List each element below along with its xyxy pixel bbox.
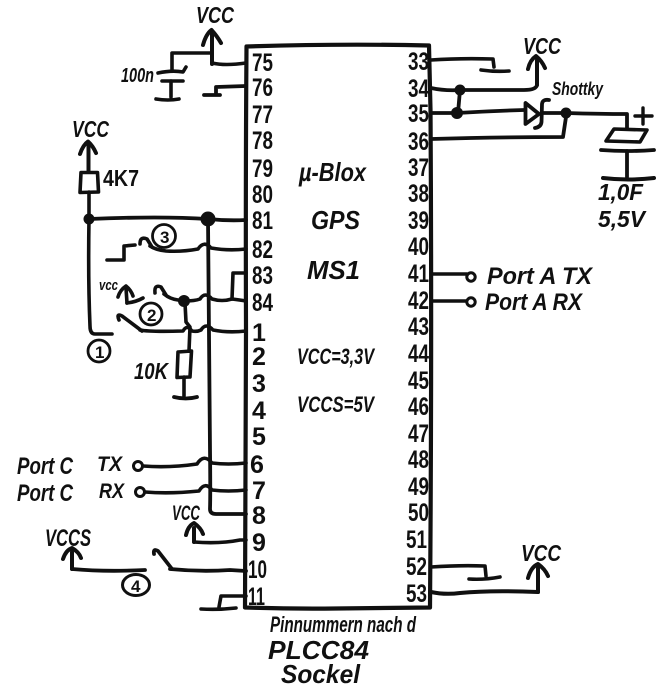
caption Pinnummern nach d xyxy=(270,612,416,637)
svg-text:3: 3 xyxy=(252,370,266,398)
svg-text:vcc: vcc xyxy=(99,277,118,294)
svg-text:8: 8 xyxy=(252,502,266,530)
svg-text:52: 52 xyxy=(406,553,427,581)
svg-text:45: 45 xyxy=(408,367,429,395)
svg-text:83: 83 xyxy=(252,262,273,290)
svg-text:9: 9 xyxy=(252,529,266,557)
VCC arrow left xyxy=(80,142,96,173)
VCC label top center xyxy=(196,2,234,28)
left pin numbers 75-84, 1-11 xyxy=(248,49,273,611)
ground below C2 xyxy=(603,178,654,180)
svg-text:34: 34 xyxy=(408,75,429,103)
svg-text:37: 37 xyxy=(408,154,429,182)
svg-text:MS1: MS1 xyxy=(307,255,360,285)
svg-text:3: 3 xyxy=(160,228,169,247)
wire pin75 to VCC xyxy=(212,63,246,65)
caption PLCC84 xyxy=(268,635,370,665)
svg-text:84: 84 xyxy=(252,289,273,317)
label Shottky xyxy=(552,79,604,99)
wire pin 36 up to diode node xyxy=(431,117,566,139)
svg-text:51: 51 xyxy=(406,526,427,554)
small vcc label at switch S2 xyxy=(99,277,118,294)
svg-text:2: 2 xyxy=(252,343,266,371)
svg-text:76: 76 xyxy=(252,74,273,102)
right pin numbers 33-53 xyxy=(406,48,429,608)
label 100n xyxy=(121,65,154,87)
svg-text:11: 11 xyxy=(248,583,265,611)
wire pin 42 Port A RX xyxy=(431,299,466,303)
circled 2 xyxy=(140,303,162,325)
plus sign at C2 xyxy=(635,108,652,124)
svg-text:Port A RX: Port A RX xyxy=(485,289,584,316)
switch S1 blade and wire to pin 1 xyxy=(118,315,246,332)
circled 1 xyxy=(88,340,110,362)
svg-text:100n: 100n xyxy=(121,65,154,87)
svg-text:38: 38 xyxy=(408,180,429,208)
svg-text:4: 4 xyxy=(131,577,141,596)
label 4K7 xyxy=(103,165,139,191)
wire pin 35 to diode anode xyxy=(431,110,524,113)
svg-text:Port C: Port C xyxy=(17,453,74,480)
wire VCCS to switch S4 xyxy=(72,569,145,571)
svg-text:µ-Blox: µ-Blox xyxy=(298,157,367,187)
svg-text:49: 49 xyxy=(408,473,429,501)
svg-text:GPS: GPS xyxy=(311,205,361,235)
circled 3 xyxy=(153,225,176,248)
switch S3 fixed contact xyxy=(107,245,135,260)
terminal circle pin 41 xyxy=(467,273,475,281)
node dot pin 34 xyxy=(455,85,466,96)
svg-text:36: 36 xyxy=(408,128,429,156)
resistor R2 10K xyxy=(177,351,192,396)
svg-text:80: 80 xyxy=(252,181,273,209)
svg-text:Pinnummern nach d: Pinnummern nach d xyxy=(270,612,416,637)
ground contact at pin 76 xyxy=(204,86,246,95)
svg-text:2: 2 xyxy=(147,306,156,325)
svg-text:42: 42 xyxy=(408,287,429,315)
circled 4 xyxy=(123,575,150,596)
IC label VCCS=5V xyxy=(297,392,376,417)
VCC arrow bottom right and wire to pin 53 xyxy=(431,564,548,594)
wire pin 41 Port A TX xyxy=(431,272,467,276)
label 5,5V xyxy=(598,206,647,232)
IC label VCC=3,3V xyxy=(297,344,376,369)
wire VCC branch to capacitor xyxy=(172,53,212,71)
svg-text:4K7: 4K7 xyxy=(103,165,139,191)
IC U1 u-Blox GPS MS1 PLCC84 socket body xyxy=(245,45,431,609)
node big junction dot on pin 81 wire xyxy=(201,212,216,227)
svg-text:1,0F: 1,0F xyxy=(598,179,644,205)
wire 10K tap down xyxy=(185,303,190,351)
svg-text:41: 41 xyxy=(408,260,429,288)
terminal circle pin 42 xyxy=(467,298,475,306)
node dot pin 35 xyxy=(451,107,463,119)
svg-text:Sockel: Sockel xyxy=(281,659,361,689)
switch S4 blade and wire to pin 10 xyxy=(154,550,246,571)
label Port A RX xyxy=(485,289,584,316)
label 10K xyxy=(134,358,169,384)
IC label u-Blox xyxy=(298,157,367,187)
svg-text:VCC=3,3V: VCC=3,3V xyxy=(297,344,376,369)
resistor R1 4K7 xyxy=(80,173,99,216)
VCC arrow top center xyxy=(203,30,221,64)
switch S3 blade and wire to pin 82 xyxy=(140,238,246,251)
svg-text:10K: 10K xyxy=(134,358,169,384)
svg-text:VCC: VCC xyxy=(172,502,201,525)
svg-text:40: 40 xyxy=(408,233,429,261)
ground at pin 11 xyxy=(201,596,246,609)
node dot after diode xyxy=(561,108,572,119)
wire VCC to pin 9 xyxy=(194,540,246,543)
VCC arrow at switch S2 xyxy=(118,286,143,303)
VCC arrow top right xyxy=(528,56,545,85)
wire TX to pin 6 xyxy=(143,458,246,466)
svg-text:10: 10 xyxy=(248,556,267,584)
terminal circle RX xyxy=(136,488,145,497)
svg-text:50: 50 xyxy=(408,499,429,527)
switch S2 blade and wire to pin 84 xyxy=(155,286,246,301)
caption Sockel xyxy=(281,659,361,689)
terminal circle TX xyxy=(134,462,143,471)
label Port A TX xyxy=(487,263,594,290)
svg-text:47: 47 xyxy=(408,420,429,448)
capacitor C1 100n xyxy=(158,67,186,97)
svg-text:Shottky: Shottky xyxy=(552,79,604,99)
node junction dot left of pin 81 xyxy=(84,214,95,225)
svg-text:Port A TX: Port A TX xyxy=(487,263,594,290)
wire VCC to pin 34 xyxy=(431,85,537,90)
svg-text:39: 39 xyxy=(408,207,429,235)
VCC arrow at pin 9 xyxy=(186,523,203,542)
svg-text:1: 1 xyxy=(95,343,104,362)
ground contact at pin 33 xyxy=(431,59,509,72)
svg-text:TX: TX xyxy=(97,453,124,476)
IC label GPS xyxy=(311,205,361,235)
long vertical wire from pin81 node to pin 8 xyxy=(208,219,246,514)
wire pin 81 xyxy=(89,218,246,221)
capacitor C2 bottom plate xyxy=(601,150,654,177)
wire from switch S2 node up to pin 83 xyxy=(232,273,246,299)
svg-text:43: 43 xyxy=(408,313,429,341)
svg-text:75: 75 xyxy=(252,49,273,77)
capacitor C2 1,0F top plate xyxy=(606,129,647,142)
svg-text:79: 79 xyxy=(252,155,273,183)
svg-text:78: 78 xyxy=(252,127,273,155)
svg-text:VCC: VCC xyxy=(196,2,234,28)
wire node 34 down to pin 35 wire xyxy=(458,90,460,113)
VCC label at pin 9 xyxy=(172,502,201,525)
ground contact at pin 52 xyxy=(431,566,500,580)
node junction dot at 10K tap xyxy=(178,295,190,307)
svg-text:Port C: Port C xyxy=(17,480,74,507)
svg-text:RX: RX xyxy=(99,480,126,503)
diode D1 Schottky xyxy=(526,100,550,128)
Port C label RX row xyxy=(17,480,74,507)
svg-text:VCC: VCC xyxy=(521,540,561,566)
svg-text:VCCS=5V: VCCS=5V xyxy=(297,392,376,417)
svg-text:4: 4 xyxy=(252,397,266,425)
svg-text:33: 33 xyxy=(408,48,429,76)
wire RX to pin 7 xyxy=(145,486,246,493)
svg-text:77: 77 xyxy=(252,101,273,129)
svg-text:44: 44 xyxy=(408,340,429,368)
VCCS arrow xyxy=(63,548,81,569)
svg-text:7: 7 xyxy=(252,477,266,505)
svg-text:35: 35 xyxy=(408,100,429,128)
svg-text:48: 48 xyxy=(408,446,429,474)
IC label MS1 xyxy=(307,255,360,285)
ground below C1 xyxy=(156,99,179,100)
Port C label TX row xyxy=(17,453,74,480)
wire diode cathode to capacitor C2 xyxy=(543,113,627,129)
svg-text:VCC: VCC xyxy=(523,33,561,59)
VCC label bottom right xyxy=(521,540,561,566)
svg-text:6: 6 xyxy=(250,451,264,479)
svg-text:5: 5 xyxy=(252,423,266,451)
svg-text:81: 81 xyxy=(252,207,273,235)
svg-text:53: 53 xyxy=(406,580,427,608)
svg-text:5,5V: 5,5V xyxy=(598,206,647,232)
svg-text:46: 46 xyxy=(408,393,429,421)
label 1,0F xyxy=(598,179,644,205)
ground below R2 xyxy=(174,397,197,399)
svg-text:82: 82 xyxy=(252,236,273,264)
VCC label left xyxy=(72,116,109,142)
VCC label top right xyxy=(523,33,561,59)
svg-text:VCC: VCC xyxy=(72,116,109,142)
wire left rail down to switch S1 xyxy=(89,219,112,334)
VCCS label xyxy=(45,525,91,552)
